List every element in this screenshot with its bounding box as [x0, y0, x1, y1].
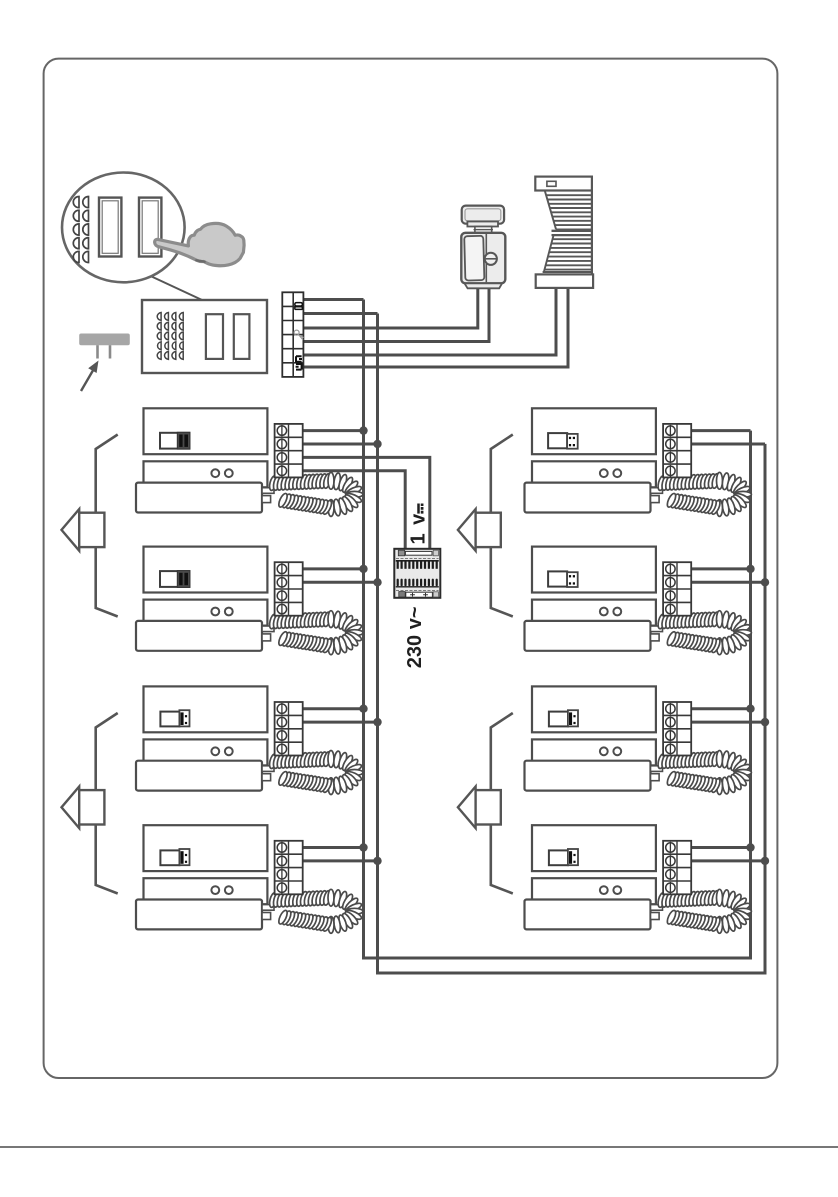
svg-text:230 v~: 230 v~	[404, 606, 426, 668]
svg-text:1 v: 1 v	[408, 512, 430, 544]
